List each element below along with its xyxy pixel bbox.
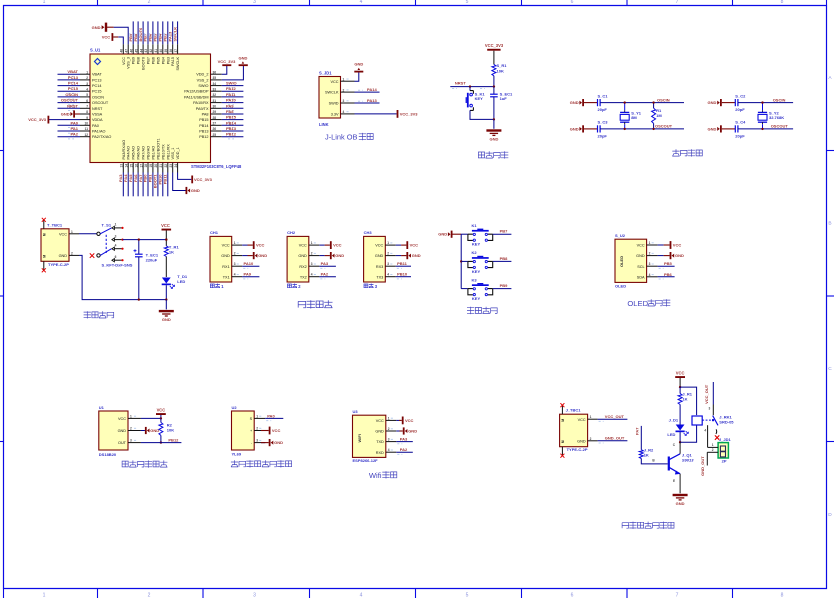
svg-text:GND: GND bbox=[61, 112, 70, 117]
svg-text:LED: LED bbox=[667, 432, 675, 437]
svg-text:S_C2: S_C2 bbox=[735, 93, 746, 98]
svg-text:NRST: NRST bbox=[67, 103, 78, 108]
svg-text:7: 7 bbox=[676, 593, 679, 598]
svg-text:1: 1 bbox=[256, 414, 258, 418]
svg-text:38: 38 bbox=[169, 49, 173, 53]
svg-text:1uF: 1uF bbox=[500, 96, 508, 101]
svg-text:PB1/AO: PB1/AO bbox=[151, 146, 155, 160]
svg-text:GND: GND bbox=[354, 62, 363, 67]
svg-text:4: 4 bbox=[360, 593, 363, 598]
svg-text:K1: K1 bbox=[472, 223, 478, 228]
svg-text:40: 40 bbox=[159, 49, 163, 53]
svg-text:M: M bbox=[561, 419, 565, 422]
svg-text:45: 45 bbox=[134, 49, 138, 53]
svg-text:K3: K3 bbox=[472, 277, 478, 282]
svg-text:12: 12 bbox=[84, 133, 88, 137]
svg-text:VCC: VCC bbox=[676, 371, 685, 376]
svg-text:PA9: PA9 bbox=[244, 272, 252, 277]
svg-text:3: 3 bbox=[115, 234, 117, 238]
svg-text:7: 7 bbox=[86, 105, 88, 109]
svg-text:PA8: PA8 bbox=[202, 113, 209, 117]
svg-text:2: 2 bbox=[86, 76, 88, 80]
svg-text:PB11/RX: PB11/RX bbox=[166, 144, 170, 160]
svg-text:VDD_1: VDD_1 bbox=[176, 147, 180, 159]
svg-text:VCC_3V3: VCC_3V3 bbox=[28, 117, 47, 122]
svg-text:3: 3 bbox=[130, 439, 132, 443]
svg-text:2: 2 bbox=[256, 427, 258, 431]
svg-text:CH1: CH1 bbox=[210, 230, 219, 235]
svg-text:4: 4 bbox=[360, 0, 363, 5]
svg-text:VBAT: VBAT bbox=[67, 69, 78, 74]
svg-text:GND: GND bbox=[676, 501, 685, 506]
svg-text:VCC: VCC bbox=[59, 232, 67, 236]
svg-text:PC13: PC13 bbox=[68, 75, 79, 80]
svg-text:PA4/AO: PA4/AO bbox=[127, 146, 131, 159]
svg-text:SCL: SCL bbox=[637, 265, 644, 269]
svg-text:CH3: CH3 bbox=[364, 230, 373, 235]
svg-text:PB11: PB11 bbox=[163, 174, 168, 185]
svg-text:PB3: PB3 bbox=[166, 57, 170, 64]
svg-text:T_TBC1: T_TBC1 bbox=[47, 222, 63, 227]
svg-text:S_C3: S_C3 bbox=[598, 120, 609, 125]
svg-text:U1: U1 bbox=[99, 405, 105, 410]
svg-text:VSS_3: VSS_3 bbox=[127, 57, 131, 69]
svg-text:PB0/AO: PB0/AO bbox=[147, 146, 151, 160]
svg-text:3: 3 bbox=[388, 438, 390, 442]
svg-text:VCC_OUT: VCC_OUT bbox=[704, 384, 709, 404]
svg-text:RX2: RX2 bbox=[299, 265, 306, 269]
svg-text:OSCOUT: OSCOUT bbox=[92, 101, 109, 105]
svg-text:46: 46 bbox=[129, 49, 133, 53]
svg-text:VCC: VCC bbox=[673, 243, 682, 248]
svg-text:GND: GND bbox=[675, 253, 684, 258]
svg-text:20: 20 bbox=[154, 164, 158, 168]
svg-text:GND: GND bbox=[570, 126, 579, 131]
svg-text:3: 3 bbox=[387, 262, 389, 266]
svg-text:PA5/AO: PA5/AO bbox=[132, 146, 136, 159]
svg-text:VCC_OUT: VCC_OUT bbox=[605, 414, 625, 419]
svg-text:VBAT: VBAT bbox=[92, 73, 102, 77]
svg-text:PB15: PB15 bbox=[226, 115, 237, 120]
svg-text:VCC: VCC bbox=[405, 418, 414, 423]
svg-text:22: 22 bbox=[164, 164, 168, 168]
svg-text:VDDA: VDDA bbox=[92, 118, 103, 122]
svg-text:OSCOUT: OSCOUT bbox=[61, 98, 79, 103]
svg-text:39: 39 bbox=[164, 49, 168, 53]
svg-text:17: 17 bbox=[139, 164, 143, 168]
svg-text:GND: GND bbox=[708, 100, 717, 105]
svg-text:S_JD1: S_JD1 bbox=[319, 71, 332, 76]
svg-text:4: 4 bbox=[86, 87, 88, 91]
svg-text:27: 27 bbox=[213, 122, 217, 126]
svg-text:13: 13 bbox=[120, 164, 124, 168]
svg-text:VCC: VCC bbox=[102, 35, 111, 40]
svg-text:6: 6 bbox=[86, 99, 88, 103]
svg-text:2: 2 bbox=[343, 88, 345, 92]
svg-text:2: 2 bbox=[234, 252, 236, 256]
svg-text:42: 42 bbox=[149, 49, 153, 53]
svg-text:15: 15 bbox=[129, 164, 133, 168]
svg-text:B: B bbox=[828, 221, 831, 227]
svg-text:3: 3 bbox=[253, 593, 256, 598]
svg-text:4: 4 bbox=[234, 273, 236, 277]
svg-text:PA2: PA2 bbox=[400, 447, 408, 452]
svg-text:3: 3 bbox=[709, 407, 711, 411]
svg-text:GND: GND bbox=[298, 254, 307, 258]
svg-text:SWCLK: SWCLK bbox=[172, 27, 177, 42]
svg-text:PB12: PB12 bbox=[168, 437, 179, 442]
svg-text:26: 26 bbox=[213, 127, 217, 131]
svg-text:GND: GND bbox=[239, 56, 248, 61]
svg-text:PB10: PB10 bbox=[397, 272, 408, 277]
svg-text:30: 30 bbox=[213, 105, 217, 109]
svg-text:20pF: 20pF bbox=[735, 133, 745, 138]
svg-text:4: 4 bbox=[704, 429, 706, 433]
svg-text:PA0: PA0 bbox=[267, 413, 275, 418]
svg-text:PA2: PA2 bbox=[321, 272, 329, 277]
svg-text:1: 1 bbox=[311, 241, 313, 245]
svg-text:PB14: PB14 bbox=[199, 124, 208, 128]
svg-text:E: E bbox=[673, 479, 675, 483]
svg-text:U3: U3 bbox=[353, 409, 359, 414]
svg-text:S_C1: S_C1 bbox=[598, 93, 609, 98]
svg-text:K2: K2 bbox=[472, 250, 478, 255]
svg-text:VCC: VCC bbox=[161, 223, 170, 228]
svg-text:20pF: 20pF bbox=[735, 107, 745, 112]
svg-text:8: 8 bbox=[781, 593, 784, 598]
svg-text:3: 3 bbox=[256, 439, 258, 443]
svg-text:41: 41 bbox=[154, 49, 158, 53]
svg-text:1: 1 bbox=[387, 241, 389, 245]
svg-text:KEY: KEY bbox=[472, 296, 481, 301]
svg-text:GND: GND bbox=[150, 428, 159, 433]
svg-text:1: 1 bbox=[115, 223, 117, 227]
svg-text:OSCIN: OSCIN bbox=[657, 97, 670, 102]
svg-text:SWCLK: SWCLK bbox=[176, 57, 180, 71]
svg-text:VCC: VCC bbox=[222, 244, 230, 248]
svg-text:OLED: OLED bbox=[615, 283, 626, 288]
svg-text:3: 3 bbox=[253, 0, 256, 5]
svg-text:PB5: PB5 bbox=[664, 261, 673, 266]
svg-text:VSS_1: VSS_1 bbox=[171, 148, 175, 160]
svg-text:VCC: VCC bbox=[272, 428, 281, 433]
svg-text:11: 11 bbox=[85, 127, 89, 131]
svg-text:GND: GND bbox=[274, 440, 283, 445]
svg-text:SWIO: SWIO bbox=[226, 81, 237, 86]
svg-text:GND: GND bbox=[375, 430, 384, 434]
svg-text:PA3: PA3 bbox=[321, 261, 329, 266]
svg-text:VCC: VCC bbox=[330, 80, 338, 84]
svg-text:PC15: PC15 bbox=[68, 86, 79, 91]
svg-text:PB7: PB7 bbox=[147, 57, 151, 64]
svg-text:SWIO: SWIO bbox=[198, 84, 208, 88]
svg-text:WIFI: WIFI bbox=[357, 434, 362, 442]
svg-text:2: 2 bbox=[130, 427, 132, 431]
svg-text:J_TBC1: J_TBC1 bbox=[566, 408, 582, 413]
svg-text:4: 4 bbox=[343, 110, 345, 114]
svg-text:4: 4 bbox=[387, 273, 389, 277]
svg-text:ESP8266-12F: ESP8266-12F bbox=[353, 458, 379, 463]
svg-text:5: 5 bbox=[86, 93, 88, 97]
svg-text:PA10: PA10 bbox=[226, 98, 236, 103]
svg-text:C: C bbox=[828, 366, 832, 372]
svg-text:PB2/BOOT1: PB2/BOOT1 bbox=[156, 138, 160, 159]
svg-text:PB9: PB9 bbox=[500, 283, 509, 288]
svg-text:GND: GND bbox=[708, 126, 717, 131]
svg-text:RXD: RXD bbox=[376, 451, 384, 455]
svg-text:GND: GND bbox=[570, 100, 579, 105]
svg-text:PA1: PA1 bbox=[71, 126, 79, 131]
svg-text:PA2: PA2 bbox=[71, 132, 79, 137]
svg-text:TX1: TX1 bbox=[223, 275, 230, 279]
svg-text:GND: GND bbox=[221, 254, 230, 258]
svg-text:29: 29 bbox=[213, 110, 217, 114]
svg-text:VCC: VCC bbox=[637, 244, 645, 248]
svg-text:10K: 10K bbox=[497, 68, 504, 73]
svg-text:24: 24 bbox=[174, 164, 178, 168]
svg-text:S9013: S9013 bbox=[682, 458, 694, 463]
svg-text:4: 4 bbox=[649, 273, 651, 277]
svg-text:PA10: PA10 bbox=[244, 261, 254, 266]
svg-text:OSCOUT: OSCOUT bbox=[655, 124, 673, 129]
svg-text:PB5: PB5 bbox=[156, 57, 160, 64]
svg-text:21: 21 bbox=[159, 164, 163, 168]
svg-text:34: 34 bbox=[213, 82, 217, 86]
svg-text:KEY: KEY bbox=[472, 242, 481, 247]
svg-text:CH2: CH2 bbox=[287, 230, 296, 235]
svg-text:PB8: PB8 bbox=[500, 256, 509, 261]
svg-text:M: M bbox=[561, 440, 565, 443]
svg-text:SRD-05: SRD-05 bbox=[719, 419, 734, 424]
svg-text:9: 9 bbox=[86, 116, 88, 120]
svg-text:1K: 1K bbox=[682, 396, 687, 401]
svg-text:2: 2 bbox=[148, 593, 151, 598]
svg-text:GND: GND bbox=[636, 254, 645, 258]
svg-text:TX3: TX3 bbox=[376, 275, 383, 279]
svg-text:PB13: PB13 bbox=[226, 126, 237, 131]
svg-text:PC14: PC14 bbox=[92, 84, 102, 88]
svg-text:5: 5 bbox=[466, 593, 469, 598]
svg-text:2P: 2P bbox=[722, 458, 727, 463]
svg-text:2: 2 bbox=[311, 252, 313, 256]
svg-text:OSCIN: OSCIN bbox=[773, 97, 786, 102]
svg-text:1: 1 bbox=[43, 0, 46, 5]
svg-text:PA9: PA9 bbox=[226, 103, 234, 108]
svg-text:SWCLK: SWCLK bbox=[325, 91, 339, 95]
svg-text:TXD: TXD bbox=[376, 440, 384, 444]
svg-text:33: 33 bbox=[213, 87, 217, 91]
svg-text:PA6/AO: PA6/AO bbox=[137, 146, 141, 159]
svg-text:GND: GND bbox=[335, 253, 344, 258]
svg-text:VCC: VCC bbox=[410, 243, 419, 248]
svg-text:VCC: VCC bbox=[578, 418, 586, 422]
svg-text:J-Link OB: J-Link OB bbox=[325, 133, 358, 142]
svg-text:KEY: KEY bbox=[472, 269, 481, 274]
svg-text:37: 37 bbox=[174, 49, 178, 53]
svg-text:OLED: OLED bbox=[627, 299, 648, 308]
svg-text:GND: GND bbox=[59, 254, 68, 258]
svg-text:VCC: VCC bbox=[157, 408, 166, 413]
svg-text:GND: GND bbox=[118, 429, 127, 433]
svg-text:3.3V: 3.3V bbox=[331, 113, 339, 117]
svg-text:PC14: PC14 bbox=[68, 81, 79, 86]
svg-text:GND: GND bbox=[191, 188, 200, 193]
svg-text:PA0: PA0 bbox=[92, 124, 99, 128]
svg-text:PB12: PB12 bbox=[226, 132, 237, 137]
svg-text:220uF: 220uF bbox=[146, 257, 158, 262]
svg-text:36: 36 bbox=[213, 70, 217, 74]
svg-text:43: 43 bbox=[144, 49, 148, 53]
svg-text:VCC: VCC bbox=[375, 244, 383, 248]
svg-text:GND: GND bbox=[92, 25, 101, 30]
svg-text:1: 1 bbox=[590, 415, 592, 419]
svg-text:GND: GND bbox=[258, 253, 267, 258]
svg-text:NRST: NRST bbox=[92, 107, 103, 111]
svg-text:18: 18 bbox=[144, 164, 148, 168]
svg-text:GND: GND bbox=[489, 136, 498, 141]
svg-text:3: 3 bbox=[649, 262, 651, 266]
svg-text:VCC: VCC bbox=[376, 419, 384, 423]
svg-text:PB14: PB14 bbox=[226, 120, 237, 125]
svg-text:1: 1 bbox=[86, 70, 88, 74]
svg-text:GND: GND bbox=[412, 253, 421, 258]
svg-text:LINK: LINK bbox=[319, 122, 329, 127]
svg-text:SDA: SDA bbox=[637, 275, 645, 279]
svg-text:PA3/RX/AO: PA3/RX/AO bbox=[122, 140, 126, 160]
svg-text:32: 32 bbox=[213, 93, 217, 97]
svg-text:GND_OUT: GND_OUT bbox=[700, 456, 705, 476]
svg-text:6: 6 bbox=[571, 593, 574, 598]
svg-text:4: 4 bbox=[115, 244, 117, 248]
svg-text:2: 2 bbox=[590, 437, 592, 441]
svg-text:PB6: PB6 bbox=[151, 57, 155, 64]
svg-text:PA12/USB/DP: PA12/USB/DP bbox=[184, 90, 209, 94]
svg-text:32.768K: 32.768K bbox=[769, 115, 784, 120]
svg-text:NRST: NRST bbox=[455, 80, 466, 85]
svg-text:1: 1 bbox=[71, 230, 73, 234]
svg-text:PB10/TX: PB10/TX bbox=[161, 144, 165, 160]
svg-text:PA8: PA8 bbox=[226, 109, 234, 114]
svg-text:2: 2 bbox=[387, 252, 389, 256]
svg-text:PA15: PA15 bbox=[171, 57, 175, 66]
svg-text:1: 1 bbox=[234, 241, 236, 245]
svg-text:PA7/AO: PA7/AO bbox=[142, 146, 146, 159]
svg-text:VCC: VCC bbox=[333, 243, 342, 248]
svg-text:S_U1: S_U1 bbox=[90, 48, 101, 53]
svg-text:3: 3 bbox=[311, 262, 313, 266]
svg-text:PA12: PA12 bbox=[226, 86, 236, 91]
svg-text:8M: 8M bbox=[631, 115, 637, 120]
svg-text:VCC_3V3: VCC_3V3 bbox=[400, 112, 419, 117]
svg-text:OSCIN: OSCIN bbox=[92, 95, 104, 99]
svg-text:GND: GND bbox=[162, 317, 171, 322]
svg-text:20pF: 20pF bbox=[598, 133, 608, 138]
svg-text:1M: 1M bbox=[656, 113, 662, 118]
svg-text:BOOT0: BOOT0 bbox=[142, 57, 146, 70]
svg-text:3: 3 bbox=[86, 82, 88, 86]
svg-text:4: 4 bbox=[311, 273, 313, 277]
svg-text:2: 2 bbox=[388, 427, 390, 431]
svg-text:6: 6 bbox=[115, 255, 117, 259]
svg-text:GND: GND bbox=[375, 254, 384, 258]
svg-text:2: 2 bbox=[712, 448, 714, 452]
svg-text:PA11/USB/DM: PA11/USB/DM bbox=[184, 95, 209, 99]
svg-text:PB12: PB12 bbox=[199, 135, 208, 139]
svg-text:YL69: YL69 bbox=[232, 452, 242, 457]
svg-text:VCC_3V3: VCC_3V3 bbox=[194, 177, 213, 182]
svg-text:STM32F103C8T6_LQFP48: STM32F103C8T6_LQFP48 bbox=[191, 164, 242, 169]
svg-text:OSCOUT: OSCOUT bbox=[771, 124, 789, 129]
svg-text:2: 2 bbox=[649, 252, 651, 256]
svg-text:U2: U2 bbox=[232, 405, 238, 410]
svg-text:PA1/AO: PA1/AO bbox=[92, 130, 105, 134]
svg-text:PA7: PA7 bbox=[635, 427, 640, 435]
svg-text:GND: GND bbox=[577, 439, 586, 443]
svg-text:PC15: PC15 bbox=[92, 90, 102, 94]
svg-text:PA11: PA11 bbox=[226, 92, 236, 97]
svg-text:VCC_3V3: VCC_3V3 bbox=[485, 43, 504, 48]
svg-text:31: 31 bbox=[213, 99, 217, 103]
svg-text:TYPE-C-2P: TYPE-C-2P bbox=[567, 447, 588, 452]
svg-text:PB11: PB11 bbox=[397, 261, 408, 266]
svg-text:RX1: RX1 bbox=[222, 265, 229, 269]
svg-text:5: 5 bbox=[466, 0, 469, 5]
svg-text:1K: 1K bbox=[169, 249, 174, 254]
svg-text:VCC_3V3: VCC_3V3 bbox=[218, 59, 237, 64]
svg-text:PC13: PC13 bbox=[92, 78, 102, 82]
svg-text:14: 14 bbox=[124, 164, 128, 168]
svg-text:PA14: PA14 bbox=[367, 87, 377, 92]
svg-text:GND: GND bbox=[438, 232, 447, 237]
svg-text:1: 1 bbox=[712, 443, 714, 447]
svg-text:PA13: PA13 bbox=[367, 98, 377, 103]
svg-text:PB13: PB13 bbox=[199, 130, 208, 134]
svg-text:VCC: VCC bbox=[118, 417, 126, 421]
svg-text:RX3: RX3 bbox=[376, 265, 383, 269]
svg-text:VDD_2: VDD_2 bbox=[196, 73, 208, 77]
svg-text:7: 7 bbox=[676, 0, 679, 5]
svg-text:8: 8 bbox=[86, 110, 88, 114]
svg-text:3: 3 bbox=[343, 99, 345, 103]
svg-text:23: 23 bbox=[169, 164, 173, 168]
svg-text:M: M bbox=[43, 233, 47, 236]
svg-text:VSSA: VSSA bbox=[92, 113, 103, 117]
svg-text:19: 19 bbox=[149, 164, 153, 168]
svg-text:TYPE-C-2P: TYPE-C-2P bbox=[48, 262, 69, 267]
svg-text:47: 47 bbox=[124, 49, 128, 53]
svg-text:VCC: VCC bbox=[299, 244, 307, 248]
svg-text:1: 1 bbox=[43, 593, 46, 598]
svg-text:GND: GND bbox=[408, 429, 417, 434]
svg-text:44: 44 bbox=[139, 49, 143, 53]
svg-text:LED: LED bbox=[177, 279, 185, 284]
svg-text:PA9/TX: PA9/TX bbox=[196, 107, 209, 111]
svg-text:PA10/RX: PA10/RX bbox=[193, 101, 209, 105]
svg-text:GND_OUT: GND_OUT bbox=[605, 436, 625, 441]
svg-text:S_C4: S_C4 bbox=[735, 120, 746, 125]
svg-text:10K: 10K bbox=[167, 428, 174, 433]
svg-text:M: M bbox=[43, 255, 47, 258]
svg-text:SWID: SWID bbox=[329, 102, 339, 106]
svg-text:6: 6 bbox=[571, 0, 574, 5]
svg-text:1: 1 bbox=[343, 77, 345, 81]
svg-text:OLED: OLED bbox=[619, 256, 624, 267]
svg-text:OSCIN: OSCIN bbox=[65, 92, 78, 97]
svg-text:28: 28 bbox=[213, 116, 217, 120]
svg-text:1: 1 bbox=[388, 416, 390, 420]
svg-text:PA3: PA3 bbox=[400, 436, 408, 441]
svg-text:J_JD1: J_JD1 bbox=[719, 437, 732, 442]
